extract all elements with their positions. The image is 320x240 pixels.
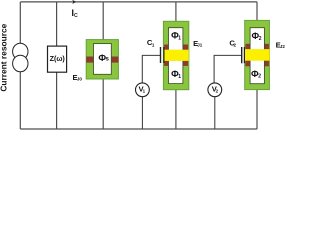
svg-text:J2: J2 — [280, 44, 285, 49]
svg-text:J0: J0 — [77, 77, 83, 82]
svg-text:1: 1 — [178, 74, 181, 80]
svg-text:C: C — [74, 13, 78, 19]
svg-text:2: 2 — [259, 36, 262, 42]
svg-text:1: 1 — [178, 36, 181, 42]
svg-text:2: 2 — [258, 74, 261, 80]
svg-text:Z(ω): Z(ω) — [50, 54, 66, 63]
svg-text:Current resource: Current resource — [0, 23, 8, 91]
svg-text:J1: J1 — [197, 43, 203, 48]
